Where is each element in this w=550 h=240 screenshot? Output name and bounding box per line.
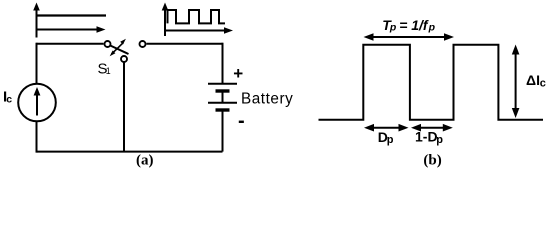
wire: left vertical (rail to current source) — [36, 43, 38, 84]
label 1-Dp — [415, 128, 443, 145]
switch S1: right contact — [140, 41, 146, 47]
current source arrowhead — [34, 87, 41, 96]
pulse icon vertical axis arrowhead — [162, 3, 169, 11]
label S1 — [98, 60, 111, 77]
wire: top rail right (switch to battery) — [147, 43, 223, 45]
svg-text:(a): (a) — [136, 152, 154, 168]
arrow Tp (period, double-headed) — [371, 36, 447, 38]
svg-text:1: 1 — [106, 66, 111, 76]
pulse icon square wave — [168, 10, 226, 23]
wire: battery top lead — [222, 43, 224, 83]
pulse waveform icon axes — [165, 9, 226, 36]
waveform (b): square wave — [319, 45, 544, 120]
DC icon vertical axis arrowhead — [33, 3, 40, 11]
label Dp — [378, 129, 394, 146]
svg-text:p: p — [436, 134, 443, 146]
svg-text:(b): (b) — [423, 152, 441, 168]
switch S1: left contact — [105, 41, 111, 47]
battery — [208, 84, 237, 110]
svg-text:ΔI: ΔI — [526, 72, 540, 88]
wire: current source bottom lead — [36, 121, 38, 153]
svg-text:c: c — [540, 78, 546, 90]
svg-text:1-D: 1-D — [415, 128, 438, 144]
svg-text:p: p — [387, 134, 394, 146]
switch S1: toggle arrow — [112, 43, 124, 54]
svg-text:c: c — [6, 94, 12, 106]
svg-text:p: p — [428, 21, 436, 33]
current source Ic — [18, 84, 56, 122]
svg-text:Battery: Battery — [241, 91, 293, 108]
wire: top rail left (current source to switch) — [37, 43, 104, 45]
arrow Dp (duty portion, double-headed) — [371, 127, 402, 129]
label Ic — [3, 89, 12, 106]
label delta-Ic — [526, 72, 546, 89]
svg-text:= 1/f: = 1/f — [399, 17, 429, 33]
wire: switch bottom contact down to bottom rail — [123, 63, 125, 152]
svg-text:p: p — [389, 21, 397, 33]
DC waveform icon axes (constant current) — [37, 9, 107, 38]
switch S1: bottom contact — [121, 56, 127, 62]
arrow delta-Ic (pulse amplitude, double-headed vertical) — [515, 51, 517, 112]
svg-text:+: + — [233, 64, 243, 83]
switch S1: blade — [110, 46, 128, 55]
arrow 1-Dp (rest portion, double-headed) — [418, 127, 446, 129]
pulse icon time axis arrowhead — [224, 27, 233, 34]
wire: bottom rail — [37, 151, 223, 153]
label Tp = 1/fp — [382, 17, 435, 34]
wire: battery bottom lead — [222, 111, 224, 152]
svg-text:-: - — [238, 110, 245, 132]
DC icon time axis arrowhead — [97, 26, 106, 33]
